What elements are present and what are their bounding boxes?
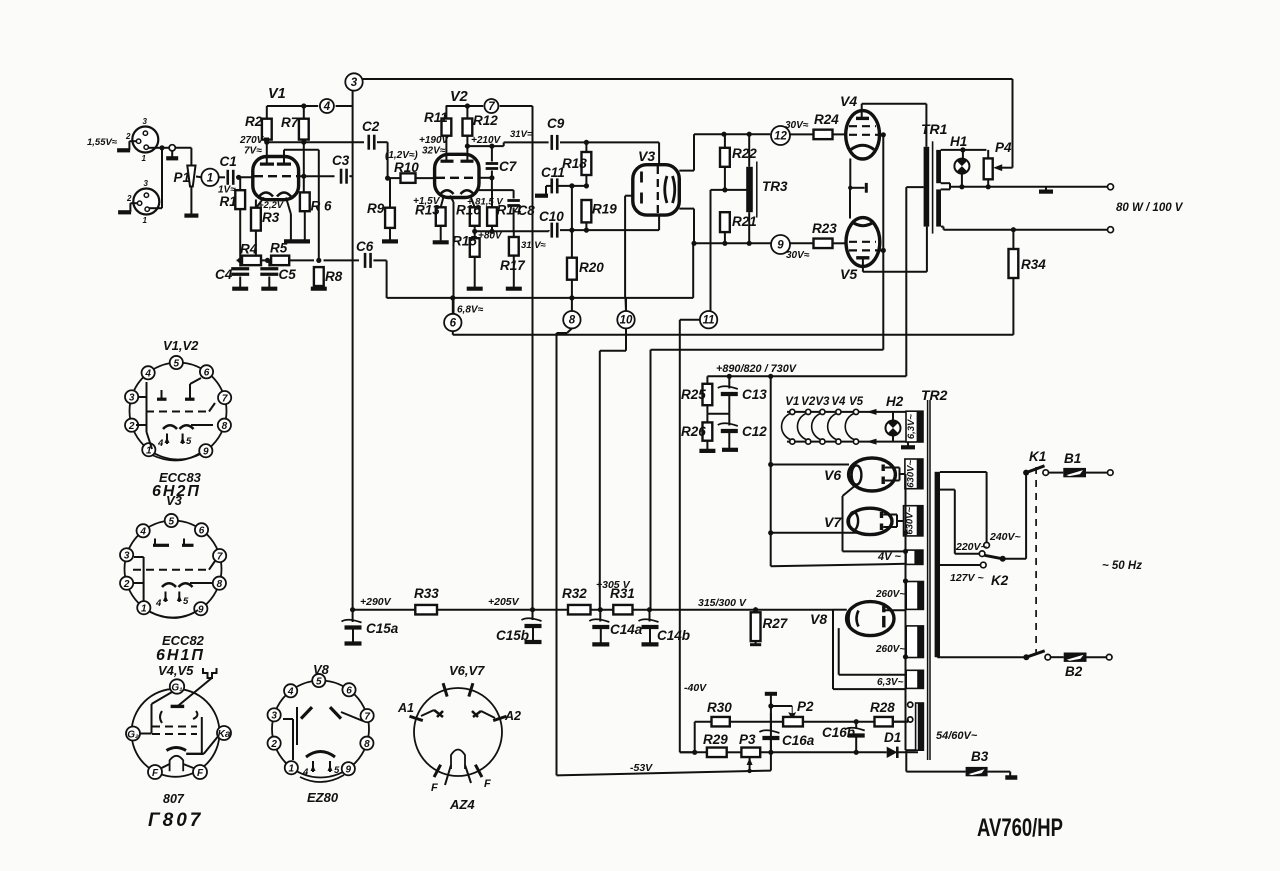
resistor R7 [299, 106, 309, 142]
svg-text:B1: B1 [1064, 451, 1081, 466]
node 7 [484, 99, 498, 113]
label R30 [707, 700, 732, 715]
label R17 [500, 258, 526, 273]
label R10 [394, 160, 419, 175]
label V8 socket [313, 662, 330, 677]
label 32V~ [422, 146, 446, 157]
socket ECC82 internals [133, 539, 215, 619]
wire R11 to V2 plate [445, 136, 447, 162]
svg-text:31 V≈: 31 V≈ [521, 240, 547, 251]
resistor R31 [613, 605, 632, 615]
label 7V~ [244, 146, 262, 157]
svg-text:V1: V1 [268, 86, 286, 102]
tube V3 [633, 165, 680, 215]
svg-text:8: 8 [569, 315, 576, 327]
807 pin G2 [126, 727, 140, 741]
svg-text:V2: V2 [450, 89, 468, 105]
ground R8 [311, 287, 327, 291]
label R22 [732, 146, 757, 161]
ground H2 line [901, 442, 915, 448]
label 4V~ [877, 551, 902, 563]
capacitor C16b [845, 722, 865, 753]
wire R1 to C4 line [239, 209, 241, 260]
wire V3 lower out [679, 209, 694, 244]
heater arrow top [867, 409, 877, 415]
ground B3 [1005, 775, 1017, 780]
wire V4 cathode [849, 159, 851, 188]
svg-text:-40V: -40V [684, 682, 707, 694]
svg-text:7: 7 [217, 551, 223, 562]
label P4 [995, 140, 1012, 155]
wire R6 to ground [304, 211, 306, 241]
capacitor C7 [486, 146, 499, 190]
svg-text:1: 1 [207, 172, 213, 184]
resistor R2 [262, 106, 272, 142]
svg-text:8: 8 [364, 739, 370, 750]
label +1,5V [413, 196, 441, 207]
label K1 [1029, 449, 1046, 464]
svg-text:F: F [431, 782, 438, 794]
wire V3 plate out [679, 134, 694, 170]
label 6,8V~ [457, 305, 484, 316]
svg-text:R28: R28 [870, 700, 895, 715]
wire 240V tap [940, 472, 987, 542]
resistor R14 [487, 190, 497, 231]
wire to input jack [162, 147, 169, 149]
capacitor C10 [552, 223, 558, 238]
junction 890-vert [768, 374, 773, 379]
svg-text:C7: C7 [499, 159, 518, 174]
V7 plates [880, 512, 883, 530]
V4 g2 junction [881, 132, 886, 137]
svg-text:V4,V5: V4,V5 [158, 663, 194, 678]
resistor R13 [436, 207, 446, 226]
junction R21 bottom [722, 241, 727, 246]
label C6 [356, 239, 374, 254]
wire 220V tap [940, 490, 979, 554]
label G807 [148, 810, 203, 831]
junction C14a [598, 607, 603, 612]
label C2 [362, 119, 380, 134]
wire 127V tap [940, 564, 980, 566]
wire node8 down [557, 328, 572, 775]
svg-text:6: 6 [346, 686, 352, 697]
svg-text:R21: R21 [732, 214, 757, 229]
svg-text:2: 2 [123, 579, 130, 590]
terminal 220V [979, 551, 985, 557]
wire 890vert down [770, 376, 772, 566]
wire C9 to V3 top [560, 142, 659, 164]
tube V6 [849, 458, 896, 491]
switch K1b [1023, 651, 1044, 660]
svg-text:R22: R22 [732, 146, 757, 161]
label R19 [592, 202, 617, 217]
ground V1 right cathode [284, 239, 310, 243]
junction TR3 bottom [747, 241, 752, 246]
junction R22 top [721, 132, 726, 137]
svg-text:1: 1 [143, 216, 148, 225]
connector XLR input top [125, 117, 158, 163]
label TR2 [921, 387, 948, 403]
svg-text:5: 5 [316, 676, 322, 687]
capacitor C2 [369, 135, 375, 150]
ground C11 [535, 186, 552, 196]
junction R12 210V [465, 144, 470, 149]
wire to V6 [771, 464, 849, 466]
junction R12 top [465, 103, 470, 108]
label 80W/100V [1116, 202, 1184, 214]
svg-text:C13: C13 [742, 387, 767, 402]
svg-text:6: 6 [450, 318, 457, 330]
tube V8 [847, 602, 894, 636]
svg-text:5: 5 [186, 436, 192, 447]
svg-text:R11: R11 [424, 110, 448, 125]
label 260V~ bottom [875, 644, 905, 655]
V7 plate leads [883, 515, 903, 528]
fuse B3 [966, 767, 988, 776]
label V4 [840, 93, 857, 109]
wire C1 to V1 [236, 176, 253, 178]
terminal 240V [984, 542, 990, 548]
TR2 winding 6.3V bottom [906, 670, 923, 688]
ground for XLR bottom [118, 203, 137, 212]
junction C16a bottom [768, 750, 773, 755]
label AZ4 [449, 797, 475, 812]
wire V8 line 315 [833, 609, 847, 611]
label H2 [886, 394, 904, 409]
wire +80V line [475, 230, 549, 232]
junction P3 wiper bottom [747, 769, 751, 773]
V6 plate leads [885, 468, 905, 481]
label C15a [366, 621, 399, 636]
label ECC82 [162, 633, 205, 648]
junction bus 260a [903, 578, 908, 583]
svg-text:2: 2 [270, 739, 277, 750]
svg-text:V5: V5 [849, 396, 864, 408]
junction C16b bottom [854, 750, 859, 755]
svg-text:7: 7 [488, 101, 495, 113]
wire K2 to K1 [1003, 473, 1026, 559]
heater pins bottom [790, 439, 859, 444]
svg-text:315/300 V: 315/300 V [698, 597, 747, 609]
svg-text:3: 3 [124, 551, 130, 562]
label C16a [782, 733, 815, 748]
junction H1 top [960, 147, 965, 152]
svg-text:6,8V≈: 6,8V≈ [457, 305, 484, 316]
label R7 [281, 115, 300, 130]
resistor R10 [388, 173, 435, 183]
transformer TR3 core [756, 162, 758, 218]
transformer TR1 secondary [936, 150, 941, 227]
terminal B1 right [1108, 470, 1114, 476]
V3 dashed vertical [657, 166, 659, 214]
label R6 [311, 199, 333, 214]
wire V8 loop inner [839, 628, 907, 675]
svg-text:R12: R12 [473, 113, 498, 128]
terminal B2 right [1106, 654, 1112, 660]
V2 grid dashed [436, 177, 478, 179]
label AV760/HP [977, 814, 1063, 842]
junction C10-vert [569, 228, 574, 233]
svg-text:R32: R32 [562, 586, 587, 601]
svg-text:8: 8 [222, 421, 228, 432]
terminal K1b [1045, 654, 1051, 660]
resistor R32 [568, 605, 591, 615]
TR2 winding 260V a [906, 582, 923, 610]
V5 plate bar [856, 258, 869, 272]
svg-text:R34: R34 [1021, 257, 1046, 272]
wire drive line top [694, 133, 770, 135]
resistor R33 [415, 605, 437, 615]
V5 cathode arc [852, 222, 875, 226]
label C13 [742, 387, 767, 402]
wire primary CT [906, 187, 923, 376]
label ECC83 [159, 470, 202, 485]
V2 plate bar left [441, 160, 454, 163]
junction C7 grid [489, 175, 494, 180]
ground C12 [722, 448, 738, 452]
label B2 [1065, 664, 1083, 679]
label C10 [539, 209, 564, 224]
node 6 [444, 314, 461, 331]
svg-text:260V~: 260V~ [875, 644, 905, 655]
label -53V [630, 762, 653, 774]
svg-text:R31: R31 [610, 586, 635, 601]
wire H1 bottom [961, 174, 963, 187]
ground for XLR top [117, 141, 136, 150]
svg-text:220V~: 220V~ [955, 541, 987, 553]
connector XLR input bottom [126, 179, 159, 225]
svg-text:6: 6 [204, 368, 210, 379]
wire drive line bottom [694, 242, 772, 244]
wire B1 to terminal [1086, 472, 1108, 474]
svg-text:D1: D1 [884, 730, 901, 745]
label R4 [240, 242, 258, 257]
switch K2 lever [985, 555, 1006, 562]
label H1 [950, 134, 967, 149]
svg-text:C10: C10 [539, 209, 564, 224]
wire C2 to R10 corner [377, 142, 388, 178]
potentiometer P1 [184, 166, 198, 216]
svg-text:9: 9 [198, 605, 204, 616]
svg-text:AV760/HP: AV760/HP [977, 814, 1063, 842]
label TR1 [921, 121, 948, 137]
svg-text:4: 4 [139, 527, 146, 538]
capacitor C12 [718, 414, 738, 450]
label 6N2P [152, 483, 201, 500]
svg-text:4: 4 [157, 438, 164, 449]
svg-text:V3: V3 [815, 396, 830, 408]
junction R19 bottom [584, 228, 589, 233]
svg-text:6,3V~: 6,3V~ [906, 414, 917, 440]
label K2 [991, 573, 1009, 588]
junction R7 top [301, 103, 306, 108]
label 260V~ top [875, 589, 905, 600]
svg-text:R8: R8 [325, 269, 343, 284]
junction bus 260b [903, 654, 908, 659]
junction R9 top [385, 176, 390, 181]
junction R7 mid [301, 140, 306, 145]
svg-text:12: 12 [774, 131, 787, 143]
svg-text:EZ80: EZ80 [307, 790, 339, 805]
label +81,5V [467, 197, 503, 208]
TR2 winding 260V b [906, 626, 923, 658]
label R34 [1021, 257, 1046, 272]
svg-text:G₁: G₁ [171, 682, 183, 693]
svg-text:~ 50 Hz: ~ 50 Hz [1102, 560, 1142, 572]
junction R6-line crossing [301, 174, 306, 179]
svg-text:V1,V2: V1,V2 [163, 338, 199, 353]
wire node11 left link [680, 320, 700, 753]
wire TR1 sec bottom [941, 227, 1108, 230]
label R16 [456, 203, 481, 218]
svg-text:B2: B2 [1065, 664, 1083, 679]
wire TR1 sec tap [941, 183, 950, 189]
svg-text:R5: R5 [270, 241, 288, 256]
TR2 winding 54/60V [916, 703, 924, 750]
svg-text:C16a: C16a [782, 733, 815, 748]
wire 4V line [771, 564, 906, 567]
wire right-plate to R8 [318, 150, 320, 261]
wire C3 to node3 vertical [349, 175, 352, 177]
svg-text:6: 6 [199, 526, 205, 537]
junction bus V7 [903, 530, 908, 535]
label +205V [488, 596, 520, 608]
potentiometer P2 [783, 717, 803, 727]
label V1 [268, 86, 286, 102]
wire C10 right line [560, 229, 659, 231]
resistor R4 [242, 256, 261, 266]
label TR3 [762, 179, 788, 194]
link K1 dashed [1035, 467, 1037, 653]
label +210V [471, 135, 502, 146]
capacitor C6 [365, 253, 371, 268]
svg-text:V4: V4 [831, 396, 846, 408]
label EZ80 [307, 790, 339, 805]
label R18 [562, 156, 587, 171]
label +2,2V [258, 200, 284, 211]
svg-text:1,55V≈: 1,55V≈ [87, 137, 118, 148]
svg-text:2: 2 [128, 421, 135, 432]
V3 cathode arcs [665, 176, 675, 203]
wire g2 bus [882, 135, 884, 350]
svg-text:4: 4 [287, 687, 294, 698]
svg-text:R9: R9 [367, 201, 385, 216]
svg-text:7V≈: 7V≈ [244, 146, 262, 157]
ground R9 [382, 228, 398, 242]
svg-text:11: 11 [703, 315, 715, 327]
svg-text:R27: R27 [763, 616, 789, 631]
svg-text:-53V: -53V [630, 762, 653, 774]
tube V7 [848, 508, 892, 534]
label 240V~ [989, 531, 1021, 543]
capacitor C11 [552, 178, 558, 193]
svg-text:A2: A2 [504, 709, 521, 723]
svg-text:80 W / 100 V: 80 W / 100 V [1116, 202, 1184, 214]
svg-text:V2: V2 [801, 396, 816, 408]
transformer TR1 primary [924, 147, 930, 227]
wire jack to P1 [175, 148, 191, 165]
label 30V~ node9 [786, 250, 810, 261]
node 10 [617, 311, 634, 328]
junction bus fil [903, 549, 908, 554]
resistor R6 [300, 192, 310, 211]
junction V7 line [768, 530, 773, 535]
svg-text:+190V: +190V [419, 135, 450, 146]
svg-text:C3: C3 [332, 153, 350, 168]
junction C15a [350, 607, 355, 612]
svg-text:C12: C12 [742, 424, 767, 439]
svg-text:30V≈: 30V≈ [786, 250, 810, 261]
label 31V~ near R17 [521, 240, 547, 251]
heater arcs [782, 413, 855, 440]
svg-text:5: 5 [174, 358, 180, 369]
label P3 [739, 732, 756, 747]
svg-text:F: F [152, 768, 159, 779]
label A1 [397, 701, 414, 715]
svg-text:1: 1 [289, 764, 295, 775]
label R28 [870, 700, 895, 715]
V4 cathode arc [851, 145, 874, 149]
807 plate cap [177, 668, 216, 706]
R27 end bar [750, 643, 761, 646]
wire K1a to B1 [1049, 472, 1064, 474]
svg-text:C15b: C15b [496, 628, 529, 643]
svg-text:R24: R24 [814, 112, 839, 127]
wire B2 to terminal [1087, 656, 1107, 658]
wire node7 rail [446, 105, 533, 107]
ground R26 [699, 441, 715, 451]
svg-text:R7: R7 [281, 115, 300, 130]
label R33 [414, 586, 439, 601]
svg-text:3: 3 [351, 77, 358, 89]
label C5 [279, 267, 297, 282]
807 pin G1 [170, 679, 184, 693]
tube V1 [253, 157, 299, 200]
label +290V [360, 596, 392, 608]
junction R15 top [472, 229, 477, 234]
label C9 [547, 116, 565, 131]
V3 grid entry [625, 195, 634, 197]
svg-text:R3: R3 [262, 210, 280, 225]
svg-text:R33: R33 [414, 586, 439, 601]
junction R14 bottom [489, 229, 494, 234]
label V8 [810, 611, 827, 627]
heater bottom line [787, 441, 914, 443]
V1 grid dashed line [254, 175, 298, 177]
fuse B1 [1063, 468, 1086, 477]
svg-text:270V=: 270V= [239, 135, 269, 146]
junction C7 top [489, 144, 494, 149]
tube V4 [846, 111, 880, 159]
wire T stem [770, 694, 772, 753]
capacitor C14a [589, 610, 609, 645]
resistor R17 [509, 231, 519, 255]
wire node11 up [710, 311, 712, 313]
wire node3 top rail [363, 79, 1013, 168]
label R9 [367, 201, 385, 216]
label 807 [163, 792, 185, 806]
wire node9line to bus [692, 243, 694, 298]
label C4 [215, 267, 233, 282]
svg-text:R 6: R 6 [311, 199, 333, 214]
V1 plate bar left [260, 163, 274, 166]
junction R18 top [584, 140, 589, 145]
svg-text:30V≈: 30V≈ [785, 120, 809, 131]
junction C15b [530, 607, 535, 612]
capacitor C1 [228, 170, 234, 185]
wire R4R5 line [237, 259, 359, 261]
